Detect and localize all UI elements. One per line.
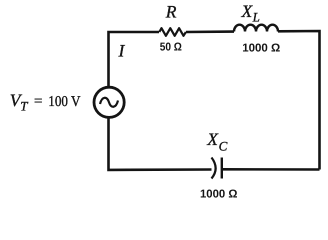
svg-text:X: X — [206, 129, 219, 149]
svg-text:R: R — [165, 2, 177, 22]
wire left vertical top (source to top-left corner) — [109, 32, 160, 87]
wire top right + right vertical — [278, 31, 320, 170]
ac source sine wave — [100, 98, 118, 107]
svg-text:1000 Ω: 1000 Ω — [242, 42, 280, 54]
wire bottom left (capacitor to bottom-left corner) — [109, 118, 212, 170]
svg-text:L: L — [252, 9, 260, 24]
wire bottom right (right corner to capacitor) — [222, 168, 320, 171]
svg-text:=: = — [34, 94, 42, 110]
svg-text:I: I — [118, 41, 126, 61]
svg-text:C: C — [219, 139, 228, 154]
capacitor XC right plate — [221, 158, 223, 179]
capacitor XC left curved plate — [212, 158, 216, 179]
wire top middle (resistor to inductor) — [186, 30, 234, 33]
inductor XL — [234, 25, 278, 32]
svg-text:X: X — [241, 1, 254, 21]
svg-text:T: T — [20, 99, 28, 114]
ac source VT circle — [94, 87, 124, 117]
svg-text:100 V: 100 V — [48, 94, 80, 110]
resistor R — [159, 28, 186, 36]
svg-text:1000 Ω: 1000 Ω — [200, 188, 237, 200]
svg-text:50 Ω: 50 Ω — [160, 42, 182, 54]
